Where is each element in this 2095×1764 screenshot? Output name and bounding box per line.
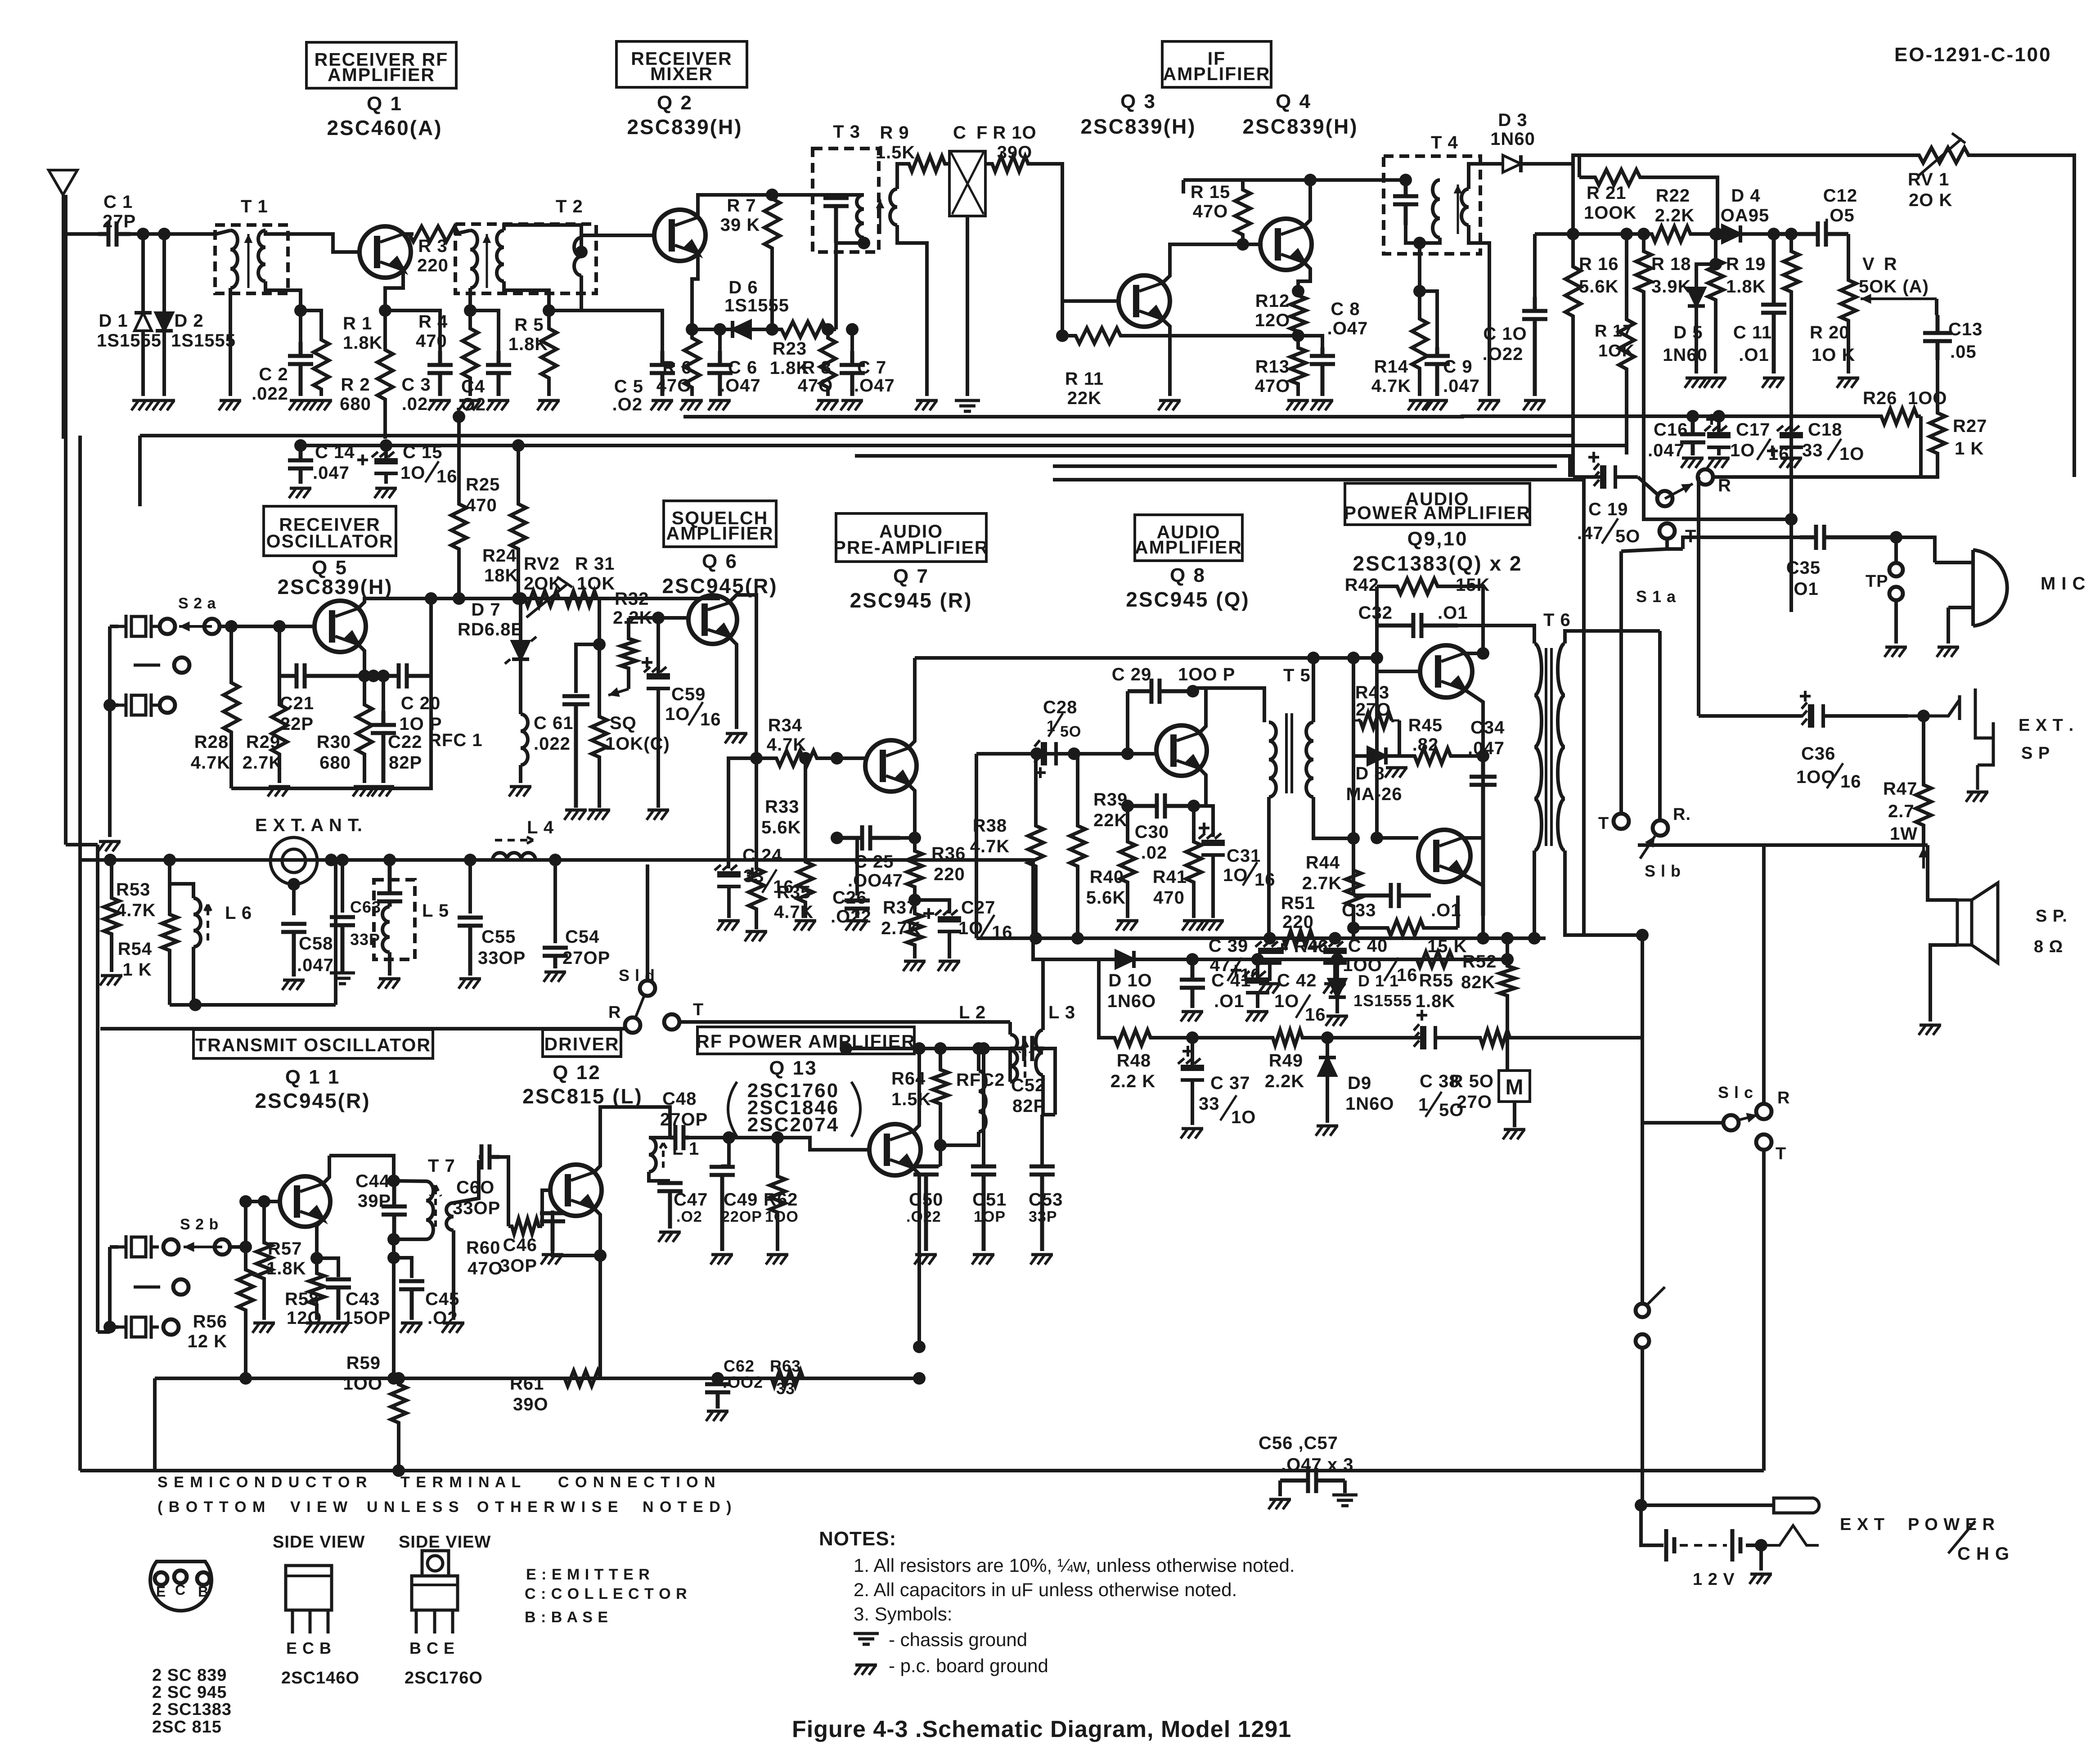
resistor R40 <box>1120 806 1135 918</box>
wire tx line <box>100 1027 625 1030</box>
svg-text:470: 470 <box>466 495 497 515</box>
wire to C2R1 <box>299 310 302 342</box>
S1c lever <box>1737 1113 1758 1123</box>
wire Q12 collector <box>594 1107 670 1172</box>
node R38 bus <box>1030 932 1042 945</box>
RECEIVER RF AMPLIFIER box <box>306 42 456 88</box>
svg-text:C 6: C 6 <box>728 358 757 378</box>
wire r50 up <box>1641 935 1644 1038</box>
wire R7 bottom <box>770 252 774 329</box>
svg-text:C O N N E C T I O N: C O N N E C T I O N <box>558 1474 716 1491</box>
ground SQ <box>588 810 610 820</box>
svg-text:T: T <box>693 1000 704 1019</box>
resistor R62 <box>770 1138 785 1251</box>
svg-text:OA95: OA95 <box>1721 206 1770 225</box>
transistor Q4 <box>1260 219 1312 270</box>
wire Q9 base top <box>1375 658 1379 662</box>
wire Q6 collector <box>730 595 756 758</box>
svg-text:S 2 a: S 2 a <box>178 595 216 612</box>
svg-text:33: 33 <box>1199 1094 1220 1114</box>
svg-text:R57: R57 <box>268 1239 302 1259</box>
svg-text:4.7K: 4.7K <box>970 837 1010 856</box>
wire lamp line <box>1641 1503 1774 1507</box>
svg-text:4.7K: 4.7K <box>116 900 156 920</box>
svg-text:AMPLIFIER: AMPLIFIER <box>328 64 435 85</box>
resistor R13 <box>1290 336 1306 396</box>
label C17 frac <box>1757 439 1771 460</box>
svg-text:1N6O: 1N6O <box>1345 1094 1394 1114</box>
D7 zener wings <box>505 637 536 664</box>
wire R25 bottom <box>457 558 461 598</box>
wire C53 stub <box>1040 1115 1044 1166</box>
svg-text:220: 220 <box>417 256 449 275</box>
wire R44 mid <box>1352 756 1355 838</box>
antenna <box>49 170 77 439</box>
wire Q11 emitter <box>317 1219 323 1258</box>
svg-text:R40: R40 <box>1090 867 1124 887</box>
ground C59 <box>647 810 669 820</box>
node D5 tap <box>1709 258 1722 270</box>
svg-text:D 8: D 8 <box>1355 764 1385 783</box>
svg-text:C F: C F <box>953 123 990 143</box>
label C24 frac <box>762 869 777 893</box>
wire MIC lead <box>1896 537 1935 562</box>
svg-text:L 1: L 1 <box>672 1139 699 1159</box>
S1a lever arrow <box>1665 484 1693 499</box>
T3 tuning arrow <box>876 199 885 234</box>
wire tx reg corner <box>1099 959 1108 1038</box>
svg-text:RV2: RV2 <box>524 554 560 574</box>
svg-text:R60: R60 <box>466 1238 500 1258</box>
node R12 R13 <box>1292 329 1304 342</box>
svg-text:C 20: C 20 <box>401 693 441 713</box>
package 2SC1760 body <box>412 1576 458 1610</box>
svg-text:16: 16 <box>1254 870 1276 890</box>
svg-text:B : B A S E: B : B A S E <box>525 1609 608 1626</box>
svg-text:Q 1: Q 1 <box>367 93 403 115</box>
capacitor C50 <box>913 1166 939 1251</box>
wire L1 bottom <box>649 1172 670 1181</box>
node R46 left <box>1347 922 1360 934</box>
svg-text:Q 2: Q 2 <box>657 92 693 114</box>
wire C44 bot down <box>392 1239 396 1258</box>
T2 tuning arrow <box>483 234 491 288</box>
node conn bottom <box>288 878 300 891</box>
svg-text:R 15: R 15 <box>1191 182 1231 202</box>
svg-text:S P: S P <box>2021 744 2050 763</box>
svg-text:Q 6: Q 6 <box>702 550 738 572</box>
filter CF <box>949 151 985 216</box>
svg-text:C : C O L L E C T O R: C : C O L L E C T O R <box>525 1585 688 1602</box>
wire match bottom <box>170 1003 336 1007</box>
svg-text:R62: R62 <box>764 1190 798 1210</box>
wire R26 corner <box>1921 416 1938 477</box>
wire T6 sec top <box>1565 631 1660 643</box>
svg-text:2SC815 (L): 2SC815 (L) <box>522 1084 643 1108</box>
wire D5 top <box>1696 264 1716 288</box>
svg-text:5O: 5O <box>1615 526 1640 546</box>
node C28 left <box>1030 747 1043 760</box>
svg-text:C 14: C 14 <box>315 442 355 462</box>
svg-text:1OP: 1OP <box>974 1208 1006 1225</box>
ground C42 <box>1246 1012 1268 1021</box>
T4 primary <box>1433 180 1440 238</box>
svg-text:S l b: S l b <box>1645 862 1681 880</box>
svg-text:R56: R56 <box>193 1312 227 1332</box>
crystal X4 <box>118 1235 159 1259</box>
svg-text:S 1 a: S 1 a <box>1636 587 1676 606</box>
node C42 top <box>1251 953 1264 966</box>
wire tert to Q2 base <box>581 235 654 252</box>
node Q5 base in <box>225 620 238 633</box>
wire T7 pri bot <box>394 1237 426 1241</box>
svg-text:C 5: C 5 <box>614 377 643 396</box>
svg-text:1OK(C): 1OK(C) <box>605 734 670 754</box>
svg-text:D 1O: D 1O <box>1108 971 1152 990</box>
T3 secondary <box>890 189 897 225</box>
svg-text:R22: R22 <box>1656 186 1690 206</box>
wire L3 top <box>1041 959 1045 1030</box>
resistor R10 <box>985 156 1035 171</box>
S2b lever arrow <box>184 1242 222 1252</box>
svg-text:R24: R24 <box>482 546 517 566</box>
resistor R32 <box>621 618 636 689</box>
wire L5 gnd <box>388 952 391 976</box>
svg-text:33P: 33P <box>1029 1208 1057 1225</box>
label C19 frac <box>1602 518 1618 544</box>
wire C13 to R27 <box>1936 360 1939 406</box>
node R18 R20 join <box>1785 513 1798 526</box>
svg-text:4.7K: 4.7K <box>191 753 231 773</box>
wire R60 to Q12 <box>542 1190 550 1226</box>
node R53 top <box>104 854 117 866</box>
wire T line right <box>1683 537 1800 549</box>
svg-text:R47: R47 <box>1883 779 1917 799</box>
resistor R58 <box>309 1258 324 1320</box>
battery 12V <box>1666 1529 1740 1561</box>
svg-text:C12: C12 <box>1823 186 1857 206</box>
wire Q6 emitter <box>730 638 737 729</box>
ground C16 <box>1681 458 1704 468</box>
wire C46 link <box>553 1210 600 1255</box>
svg-text:R29: R29 <box>246 732 280 752</box>
ground T1 <box>219 400 241 410</box>
ground T3 sec <box>915 400 938 410</box>
capacitor C26 <box>845 900 870 918</box>
C50 stub <box>926 1165 940 1167</box>
svg-text:- chassis ground: - chassis ground <box>889 1629 1027 1650</box>
svg-text:27O: 27O <box>1356 700 1391 720</box>
capacitor T4 internal <box>1393 180 1418 225</box>
svg-text:T 4: T 4 <box>1431 133 1458 153</box>
svg-text:2.7K: 2.7K <box>243 753 283 773</box>
S2a lever arrow <box>179 621 212 631</box>
wire RFC2 top <box>977 1048 980 1071</box>
switch power lever <box>1648 1287 1665 1304</box>
wire R1 branch <box>301 310 321 333</box>
capacitor C41 <box>1180 959 1205 1008</box>
transistor Q10 <box>1418 830 1470 882</box>
T7 arrow <box>430 1185 441 1227</box>
svg-text:1. All resistors are 10%, ¼w,: 1. All resistors are 10%, ¼w, unless oth… <box>854 1555 1295 1576</box>
capacitor C48 <box>670 1125 689 1150</box>
svg-text:1 K: 1 K <box>122 960 152 980</box>
label C31 frac <box>1243 862 1257 886</box>
svg-text:2SC146O: 2SC146O <box>281 1669 360 1687</box>
wire S2a common <box>110 625 118 628</box>
svg-text:16: 16 <box>436 467 458 486</box>
label EXT POWER slash <box>1948 1521 1975 1553</box>
svg-text:N O T E D ): N O T E D ) <box>643 1498 733 1516</box>
svg-text:8 Ω: 8 Ω <box>2034 937 2063 956</box>
node det <box>1548 163 1549 164</box>
note pc symbol <box>854 1665 877 1675</box>
wire R33 gnd <box>755 922 758 929</box>
package 2SC1460 pins <box>292 1610 328 1633</box>
wire Q4 collector <box>1304 180 1310 226</box>
capacitor C22 <box>371 711 396 783</box>
transistor Q1 <box>360 226 411 278</box>
svg-text:R42: R42 <box>1345 575 1379 595</box>
T5 primary <box>1269 722 1276 797</box>
wire TP stub <box>1894 537 1898 563</box>
wire Q11 out down <box>392 1258 396 1378</box>
svg-text:.047: .047 <box>1468 738 1505 758</box>
svg-text:V I E W: V I E W <box>290 1498 348 1516</box>
svg-text:L 6: L 6 <box>225 903 252 923</box>
resistor R1 <box>314 333 329 396</box>
svg-text:R28: R28 <box>194 732 229 752</box>
diode D4 <box>1699 225 1774 243</box>
wire Q9Q10 base rail <box>1375 658 1379 838</box>
svg-text:C17: C17 <box>1736 420 1770 440</box>
resistor R41 <box>1186 806 1201 918</box>
node C15 tap <box>380 439 392 452</box>
diode D8 <box>1353 747 1399 765</box>
capacitor C2 <box>288 342 313 396</box>
svg-text:C 61: C 61 <box>534 713 574 733</box>
wire c56 right <box>1343 1480 1347 1493</box>
svg-text:.047: .047 <box>1648 441 1685 460</box>
node T2 R4 <box>464 304 477 317</box>
capacitor C43 <box>326 1279 351 1320</box>
resistor R25 <box>451 495 467 558</box>
node Q4 e <box>1292 285 1304 297</box>
capacitor C29 <box>1128 679 1193 704</box>
svg-text:OSCILLATOR: OSCILLATOR <box>266 531 394 551</box>
svg-text:C49: C49 <box>724 1190 758 1210</box>
svg-text:B C E: B C E <box>409 1639 455 1657</box>
ground C8 <box>1311 400 1333 410</box>
svg-text:.O47: .O47 <box>854 376 895 396</box>
ground C43 <box>327 1323 349 1333</box>
svg-text:D9: D9 <box>1348 1073 1371 1093</box>
label C36 frac <box>1827 763 1843 788</box>
svg-text:U N L E S S: U N L E S S <box>367 1498 460 1516</box>
svg-text:R61: R61 <box>510 1374 544 1394</box>
wire Q11 collector <box>323 1156 329 1183</box>
ground C37 <box>1181 1129 1203 1138</box>
svg-text:C44: C44 <box>355 1171 390 1191</box>
svg-text:C50: C50 <box>909 1190 943 1210</box>
node C35 TP <box>1890 531 1902 544</box>
speaker SP <box>1957 883 1998 963</box>
node T4 top <box>1399 174 1412 186</box>
svg-text:SIDE VIEW: SIDE VIEW <box>273 1533 365 1552</box>
resistor R51 <box>1280 931 1316 946</box>
wire TP gnd lead <box>1894 600 1898 643</box>
ground R5 <box>537 400 560 410</box>
svg-text:.047: .047 <box>313 463 350 483</box>
svg-text:5.6K: 5.6K <box>1579 277 1619 297</box>
capacitor C28 <box>1034 740 1056 778</box>
ground R1 <box>310 400 332 410</box>
wire T6 pri top <box>1483 625 1534 643</box>
resistor R50 <box>1480 1030 1510 1045</box>
svg-text:C 1O: C 1O <box>1483 324 1527 344</box>
wire C19 feed <box>1571 436 1575 477</box>
wire T4 sec top <box>1469 164 1489 189</box>
wire audio rail <box>915 656 1377 660</box>
svg-text:R 20: R 20 <box>1810 323 1850 342</box>
svg-text:2 SC1383: 2 SC1383 <box>152 1700 232 1719</box>
wire speaker feed <box>1638 843 1928 847</box>
capacitor C25 <box>837 825 900 850</box>
node C17 bus <box>1713 410 1725 423</box>
node C54 top <box>549 854 562 866</box>
svg-text:2 SC 839: 2 SC 839 <box>152 1666 227 1685</box>
wire Q10 emitter <box>1462 874 1483 916</box>
wire supply bus B <box>140 434 1573 437</box>
svg-text:T E R M I N A L: T E R M I N A L <box>400 1474 522 1491</box>
terminal S2a-3 <box>160 697 175 713</box>
svg-text:16: 16 <box>1840 772 1861 792</box>
resistor R63 <box>765 1371 810 1386</box>
ground C53 <box>1030 1255 1053 1264</box>
T5 secondary <box>1306 722 1313 797</box>
wire R27 bottom <box>1921 460 1938 477</box>
ground C49 <box>710 1255 733 1264</box>
wire speaker gnd <box>1930 945 1957 1021</box>
svg-text:.O47: .O47 <box>720 376 761 396</box>
T6 primary <box>1534 643 1542 850</box>
node D1-D2 <box>158 228 171 240</box>
microphone MIC <box>1935 550 2007 643</box>
wire C55 drop <box>468 860 472 913</box>
node push-pull <box>1477 750 1489 762</box>
T4 tuning arrow <box>1454 184 1462 234</box>
svg-text:TP: TP <box>1866 572 1888 591</box>
node bus R18 <box>1637 228 1650 240</box>
wire IF supply line <box>1183 178 1406 182</box>
svg-text:C32: C32 <box>1358 603 1393 623</box>
jack EXT SP <box>1908 688 1993 790</box>
RECEIVER OSCILLATOR box <box>264 506 396 556</box>
label C42 frac <box>1296 994 1310 1018</box>
node C44 bot <box>387 1233 400 1246</box>
ground C10 <box>1523 400 1546 410</box>
wire C33 drop <box>1352 838 1355 895</box>
wire S1c T down <box>1762 1150 1766 1471</box>
crystal X6 <box>118 1315 159 1339</box>
svg-text:C56 ,C57: C56 ,C57 <box>1259 1433 1338 1453</box>
node R36 bot <box>908 894 921 906</box>
terminal S1b R <box>1653 820 1668 836</box>
svg-text:C55: C55 <box>481 927 516 947</box>
resistor VR <box>1841 259 1856 342</box>
wire T4 bot <box>1406 225 1440 243</box>
wire L2 bottom <box>1008 1048 1012 1082</box>
wire top border <box>1573 155 1908 164</box>
wire L2 top <box>1008 1022 1012 1035</box>
node Q13 e bus <box>913 1341 926 1353</box>
node C30 left <box>1121 800 1134 812</box>
capacitor C21 <box>279 663 364 688</box>
wire antenna to C1 <box>63 232 98 236</box>
svg-text:1OO P: 1OO P <box>1178 665 1235 684</box>
svg-text:C13: C13 <box>1948 319 1983 339</box>
svg-text:R63: R63 <box>770 1357 801 1375</box>
wire tx emitter bus <box>155 1377 919 1380</box>
wire left vertical 1 <box>64 195 67 845</box>
resistor R20 <box>1784 234 1799 309</box>
node Q5 base in2 <box>273 620 286 633</box>
filter CF cross <box>951 152 984 214</box>
node C7 top <box>846 323 859 336</box>
svg-text:C 15: C 15 <box>403 442 443 462</box>
battery dashes <box>1680 1544 1727 1547</box>
wire RV1 to corner <box>1980 155 2074 477</box>
svg-text:.O22: .O22 <box>906 1208 941 1225</box>
svg-text:1.5K: 1.5K <box>876 143 916 162</box>
svg-text:R: R <box>1777 1089 1790 1107</box>
wire S2a to Q5 <box>220 625 315 628</box>
capacitor C24 <box>715 865 758 918</box>
terminal S1c T <box>1756 1134 1771 1150</box>
ground D5 <box>1685 378 1707 388</box>
node R25 bot <box>453 592 465 605</box>
node coll line <box>840 1042 852 1055</box>
wire Q7 base <box>837 756 865 760</box>
wire C63 drop <box>341 860 344 913</box>
svg-text:220: 220 <box>934 864 965 884</box>
svg-text:C18: C18 <box>1808 420 1842 440</box>
resistor R49 <box>1272 1030 1303 1045</box>
ground R30 <box>353 787 375 796</box>
svg-text:1O: 1O <box>665 704 690 724</box>
wire Q9 collector <box>1464 625 1483 653</box>
svg-text:5.6K: 5.6K <box>761 818 801 837</box>
svg-text:39O: 39O <box>997 143 1033 162</box>
svg-text:2SC839(H): 2SC839(H) <box>627 115 742 139</box>
C49 stub <box>722 1165 729 1167</box>
wire T4 center <box>1418 243 1421 291</box>
node Q7 base <box>831 752 843 765</box>
node S2a common <box>103 699 116 711</box>
capacitor C13 <box>1923 315 1952 360</box>
svg-text:1OO: 1OO <box>765 1208 799 1225</box>
wire VR bottom <box>1847 342 1850 373</box>
svg-text:C 11: C 11 <box>1733 323 1772 342</box>
ground C26 <box>845 921 868 931</box>
svg-text:33: 33 <box>776 1379 795 1398</box>
svg-text:1.8K: 1.8K <box>343 333 383 353</box>
resistor RV1 <box>1908 148 1980 163</box>
node base R57 <box>258 1195 270 1208</box>
svg-text:.82: .82 <box>1412 735 1439 755</box>
svg-text:SQ: SQ <box>610 713 637 733</box>
svg-text:AMPLIFIER: AMPLIFIER <box>1163 63 1271 84</box>
